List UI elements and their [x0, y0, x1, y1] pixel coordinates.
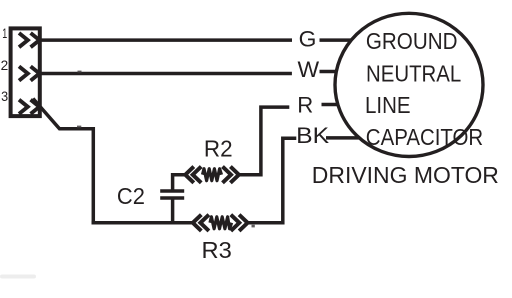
wire R2 to node R [239, 107, 289, 175]
svg-text:G: G [299, 27, 317, 52]
svg-text:1: 1 [2, 25, 7, 41]
svg-text:3: 3 [1, 88, 8, 104]
connector J1 body [11, 28, 40, 116]
resistor R3 left arrows [193, 215, 209, 231]
svg-text:2: 2 [1, 57, 9, 73]
svg-text:R3: R3 [202, 237, 232, 263]
scan tick on R3 wire [252, 225, 255, 228]
wire left vertical [92, 127, 96, 223]
scan tick on W wire [78, 71, 82, 74]
resistor R2 left arrows [185, 167, 201, 183]
wire BK to motor [326, 136, 359, 140]
wire C2 top to R2 [173, 175, 186, 191]
resistor R3 right arrows [231, 215, 248, 231]
svg-text:R: R [297, 93, 313, 118]
capacitor C2 top plate [160, 189, 184, 193]
svg-text:BK: BK [296, 123, 329, 148]
wire G to motor [320, 38, 352, 42]
scan smudge bottom left [0, 275, 36, 279]
svg-text:LINE: LINE [365, 92, 411, 118]
wire pin3 diagonal [33, 99, 93, 129]
svg-text:R2: R2 [204, 136, 233, 162]
svg-text:W: W [298, 57, 320, 82]
scan tick on pin3 wire [77, 126, 81, 129]
resistor R3 zigzag [210, 217, 232, 229]
svg-text:NEUTRAL: NEUTRAL [366, 61, 461, 87]
capacitor C2 bottom plate [160, 196, 184, 200]
svg-text:DRIVING MOTOR: DRIVING MOTOR [312, 162, 499, 188]
svg-text:CAPACITOR: CAPACITOR [366, 124, 483, 150]
pin 2 contact chevrons [19, 66, 39, 80]
wire R3 to node BK [248, 138, 297, 223]
pin 3 contact chevrons [19, 100, 39, 114]
wire pin1 to G [41, 38, 292, 42]
pin 1 contact chevrons [19, 33, 39, 47]
wire R to motor [322, 103, 340, 107]
wire C2 bottom lead [171, 198, 175, 223]
wire pin2 to W [41, 72, 292, 76]
wire W to motor [320, 70, 338, 74]
svg-text:C2: C2 [117, 183, 145, 209]
svg-text:GROUND: GROUND [366, 28, 458, 54]
motor circle U1 [335, 13, 483, 156]
resistor R2 zigzag [203, 169, 222, 181]
wire bottom horizontal [92, 221, 194, 225]
resistor R2 right arrows [223, 167, 239, 183]
